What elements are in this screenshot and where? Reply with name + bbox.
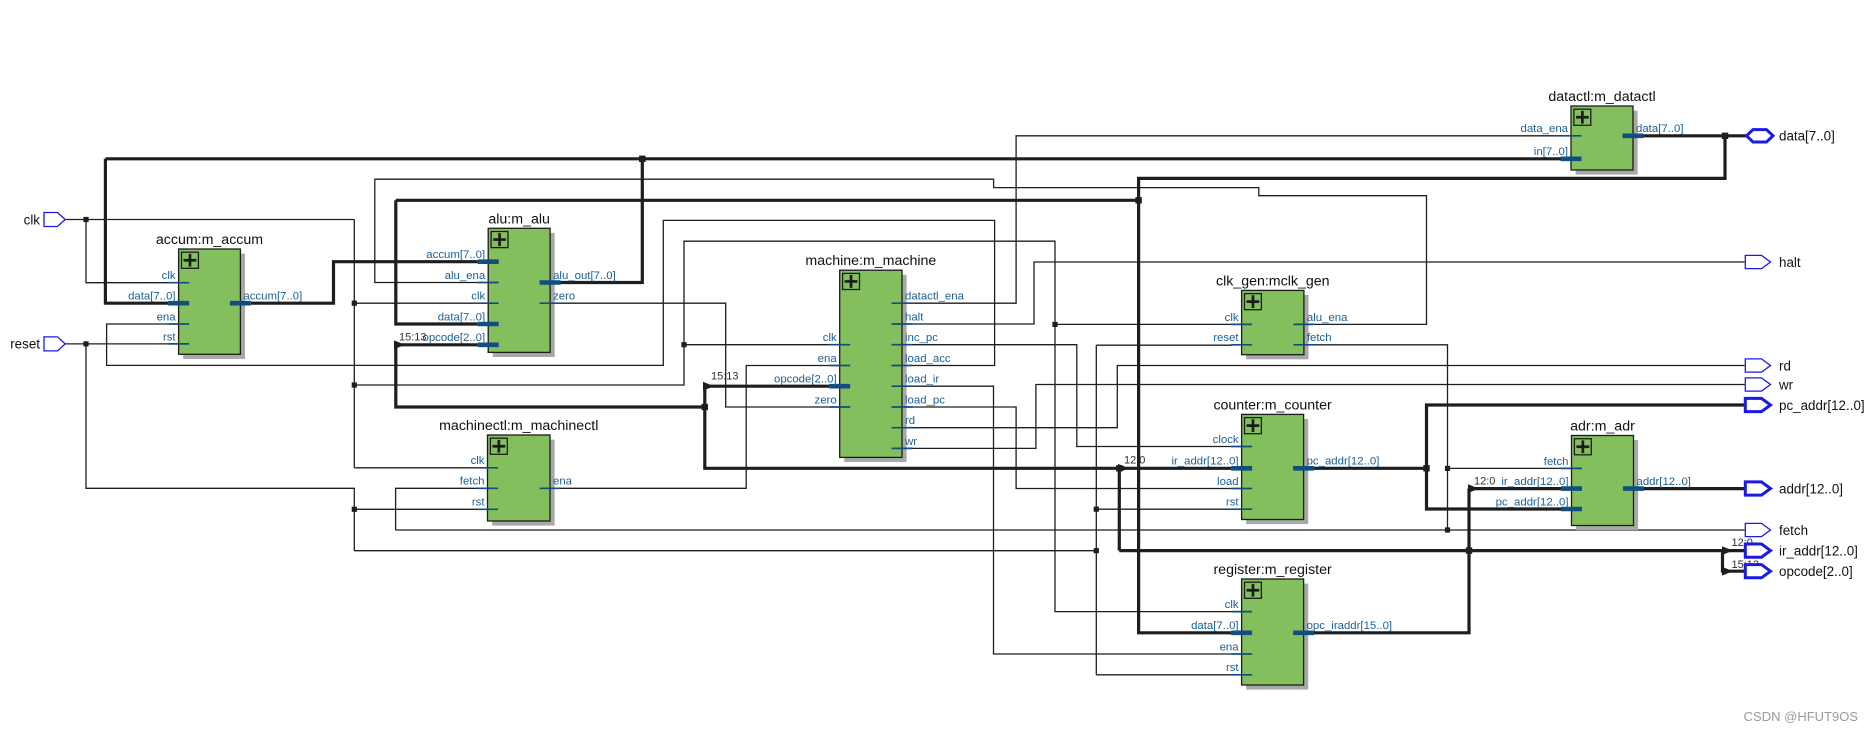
port machinectl.ena (output) [540,476,573,489]
junction [1052,322,1057,327]
svg-text:reset: reset [1213,332,1239,344]
svg-text:wr: wr [904,436,917,448]
wire clk to machine.clk [684,344,829,346]
port adr.addr[12..0] (output) [1623,476,1691,489]
wire clk pin run [65,219,354,221]
svg-text:alu_out[7..0]: alu_out[7..0] [553,270,616,282]
wire datactl_ena [912,136,1560,303]
svg-text:clk: clk [24,212,41,227]
module machine:m_machine [805,253,936,462]
svg-text:datactl_ena: datactl_ena [905,291,965,303]
svg-text:ena: ena [157,311,177,323]
wire machinectl.ena to machine.ena [560,366,829,489]
port alu.accum[7..0] (input) [426,249,498,262]
svg-text:rst: rst [163,331,176,343]
svg-text:fetch: fetch [1544,456,1569,468]
port clk_gen.clk (input) [1225,312,1252,325]
wire alu_ena run [375,179,1427,324]
junction [1445,466,1450,471]
wire addr out to pin [1644,487,1745,490]
junction [83,217,88,222]
wire opc_iraddr slice to opcode pin [1723,551,1745,572]
svg-text:pc_addr[12..0]: pc_addr[12..0] [1779,398,1865,413]
port counter.pc_addr[12..0] (output) [1293,456,1379,469]
port machine.ena (input) [818,353,851,366]
svg-text:fetch: fetch [460,476,485,488]
svg-text:ir_addr[12..0]: ir_addr[12..0] [1501,476,1568,488]
port accum.data[7..0] (input) [128,291,189,304]
wire zero to machine.zero [561,303,830,407]
port machine.opcode[2..0] (input) [774,374,850,387]
input pin reset [10,337,65,352]
port adr.ir_addr[12..0] (input) [1501,476,1582,489]
svg-text:data[7..0]: data[7..0] [128,291,176,303]
module alu:m_alu [488,211,555,357]
junction [1722,133,1728,139]
wire load_pc to counter.load [912,407,1231,489]
wire reset to register.rst [1096,674,1231,676]
port register.data[7..0] (input) [1191,620,1252,633]
wire wr to pin [912,385,1744,449]
wire reset to machinectl.rst [354,508,477,510]
svg-text:opcode[2..0]: opcode[2..0] [422,332,485,344]
junction [1094,548,1099,553]
wire load_ir to register.ena [912,386,1231,654]
port machinectl.fetch (input) [460,476,498,489]
svg-text:15:13: 15:13 [711,371,739,383]
output pin opcode[2..0] [1745,564,1852,579]
svg-text:load_ir: load_ir [905,374,939,386]
junction [83,341,88,346]
wire opc_iraddr slice to counter.ir_addr [1119,467,1231,470]
output pin fetch [1745,523,1808,538]
junction [1135,197,1141,203]
port machinectl.clk (input) [471,455,498,468]
bus slice arrowhead [1722,546,1733,555]
svg-text:12:0: 12:0 [1124,455,1145,467]
port machine.datactl_ena (output) [892,291,965,304]
wire fetch long run [396,529,1745,531]
wire alu_out bus to accum.data [105,159,168,303]
wire data bus left run [396,199,1139,202]
module clk_gen:mclk_gen [1216,273,1330,359]
port machinectl.rst (input) [472,497,498,510]
junction [1116,465,1122,471]
svg-text:rd: rd [905,415,915,427]
port accum.ena (input) [157,311,190,324]
output pin addr[12..0] [1745,481,1843,496]
wire alu_out to net [561,159,643,283]
port machine.zero (input) [815,394,851,407]
junction [352,382,357,387]
port alu.zero (output) [540,291,576,304]
wire clk main vertical [353,220,355,468]
svg-text:ir_addr[12..0]: ir_addr[12..0] [1171,456,1238,468]
junction [1445,527,1450,532]
svg-text:wr: wr [1778,377,1794,392]
svg-text:adr:m_adr: adr:m_adr [1570,419,1635,435]
svg-text:zero: zero [815,394,837,406]
output pin ir_addr[12..0] [1745,543,1858,558]
wire data bus to alu.data [396,200,478,324]
junction [639,156,645,162]
svg-text:counter:m_counter: counter:m_counter [1213,397,1332,413]
svg-text:ena: ena [818,353,838,365]
svg-text:pc_addr[12..0]: pc_addr[12..0] [1496,496,1569,508]
wire opc_iraddr bus up [1118,468,1121,550]
bus slice arrowhead [1722,567,1733,576]
port accum.clk (input) [162,270,189,283]
svg-text:ir_addr[12..0]: ir_addr[12..0] [1779,543,1858,558]
port machine.clk (input) [823,332,850,345]
port alu.opcode[2..0] (input) [422,332,498,345]
port alu.clk (input) [471,291,498,304]
wire inc_pc to counter.clock [912,345,1231,447]
bus slice arrowhead [1468,484,1479,493]
svg-text:addr[12..0]: addr[12..0] [1779,481,1843,496]
wire opc_iraddr bus left run [705,386,1120,468]
svg-text:alu_ena: alu_ena [1307,312,1348,324]
module accum:m_accum [156,232,263,359]
svg-text:addr[12..0]: addr[12..0] [1637,476,1691,488]
port machine.inc_pc (output) [892,332,939,345]
port register.clk (input) [1225,599,1252,612]
svg-text:load_acc: load_acc [905,353,951,365]
svg-text:clk: clk [823,332,837,344]
port machine.wr (output) [892,436,918,449]
wire opc_iraddr slice to ir_addr pin [1723,549,1745,552]
svg-text:rst: rst [472,497,485,509]
wire clk to alu.clk [354,302,478,304]
svg-text:pc_addr[12..0]: pc_addr[12..0] [1307,456,1380,468]
wire opc_iraddr bus from register [1314,489,1469,633]
port clk_gen.fetch (output) [1293,332,1331,345]
input pin clk [24,212,66,227]
module datactl:m_datactl [1548,89,1655,175]
svg-text:zero: zero [553,291,575,303]
port register.ena (input) [1220,641,1253,654]
junction [681,342,686,347]
bus slice arrowhead [703,382,714,391]
svg-text:load: load [1217,476,1239,488]
svg-text:load_pc: load_pc [905,394,945,406]
wire fetch from clk_gen [1314,345,1447,530]
wire data bus to register.data [1139,200,1232,633]
port adr.fetch (input) [1544,456,1582,469]
svg-text:accum[7..0]: accum[7..0] [243,291,302,303]
svg-text:clock: clock [1213,434,1239,446]
port datactl.in[7..0] (input) [1534,146,1582,159]
svg-text:CSDN @HFUT9OS: CSDN @HFUT9OS [1744,709,1859,724]
output pin halt [1745,255,1801,270]
svg-text:halt: halt [1779,255,1801,270]
svg-text:fetch: fetch [1307,332,1332,344]
svg-text:data_ena: data_ena [1520,123,1568,135]
module machinectl:m_machinectl [439,418,598,526]
port counter.clock (input) [1213,434,1252,447]
bidir pin data[7..0] [1747,129,1835,144]
port counter.ir_addr[12..0] (input) [1171,456,1252,469]
wire opc_iraddr bus run [1119,549,1722,552]
wire opc_iraddr bus to alu [396,345,705,407]
wire reset to counter.rst [1096,508,1231,510]
svg-text:opcode[2..0]: opcode[2..0] [774,374,837,386]
wire clk to machinectl.clk [354,467,477,469]
svg-text:opcode[2..0]: opcode[2..0] [1779,564,1853,579]
output pin pc_addr[12..0] [1745,398,1864,413]
module register:m_register [1213,562,1332,690]
svg-text:15:13: 15:13 [399,332,427,344]
svg-text:rst: rst [1226,662,1239,674]
bus slice arrowhead [394,340,405,349]
svg-text:in[7..0]: in[7..0] [1534,146,1568,158]
port machine.load_ir (output) [892,374,940,387]
junction [1466,547,1472,553]
svg-text:fetch: fetch [1779,523,1808,538]
port machine.load_pc (output) [892,394,946,407]
wire reset east run [354,550,1096,552]
svg-text:alu_ena: alu_ena [445,270,486,282]
port register.opc_iraddr[15..0] (output) [1293,620,1392,633]
port alu.alu_out[7..0] (output) [540,270,616,283]
junction [352,301,357,306]
port accum.accum[7..0] (output) [230,291,302,304]
wire pc_addr to adr.pc_addr [1427,468,1562,509]
svg-text:data[7..0]: data[7..0] [1636,123,1684,135]
junction [1423,465,1429,471]
wire halt to pin [912,262,1744,324]
svg-text:clk: clk [1225,312,1239,324]
output pin wr [1745,377,1793,392]
wire reset right vertical [1095,345,1097,675]
wire reset to clk_gen.reset [1096,344,1231,346]
port register.rst (input) [1226,662,1252,675]
wire data bus to pin [1643,134,1746,137]
svg-text:inc_pc: inc_pc [905,332,938,344]
port counter.load (input) [1217,476,1252,489]
port clk_gen.alu_ena (output) [1293,312,1348,325]
wire clk to clk_gen.clk [1055,323,1232,325]
svg-text:halt: halt [905,311,924,323]
wire rd to pin [912,366,1744,428]
svg-text:data[7..0]: data[7..0] [438,311,486,323]
wire load_acc to accum.ena [107,220,995,365]
wire reset pin to accum.rst [65,343,168,345]
svg-text:ena: ena [1220,641,1240,653]
svg-text:accum:m_accum: accum:m_accum [156,232,263,248]
svg-text:data[7..0]: data[7..0] [1191,620,1239,632]
wire alu_out bus main [105,157,1561,160]
svg-text:12:0: 12:0 [1474,476,1495,488]
svg-text:machine:m_machine: machine:m_machine [805,253,936,269]
svg-text:register:m_register: register:m_register [1213,562,1332,578]
svg-text:clk: clk [162,270,176,282]
module adr:m_adr [1570,419,1638,531]
port datactl.data_ena (input) [1520,123,1581,136]
bus slice arrowhead [1118,464,1129,473]
wire fetch to machinectl.fetch [396,488,478,530]
port clk_gen.reset (input) [1213,332,1252,345]
junction [1094,507,1099,512]
svg-text:opc_iraddr[15..0]: opc_iraddr[15..0] [1307,620,1393,632]
module counter:m_counter [1213,397,1332,524]
wire pc_addr to pin [1427,405,1745,468]
svg-text:rst: rst [1226,497,1239,509]
port alu.alu_ena (input) [445,270,499,283]
wire fetch to adr.fetch [1448,467,1562,469]
junction [352,507,357,512]
port alu.data[7..0] (input) [438,311,499,324]
port datactl.data[7..0] (output) [1623,123,1684,136]
svg-text:reset: reset [10,337,40,352]
wire clk east run [354,241,1231,611]
svg-text:data[7..0]: data[7..0] [1779,129,1835,144]
wire pc_addr from counter [1314,467,1427,470]
port machine.rd (output) [892,415,916,428]
output pin rd [1745,358,1791,373]
svg-text:clk_gen:mclk_gen: clk_gen:mclk_gen [1216,273,1330,289]
wire opc_iraddr slice to machine.opcode [705,385,830,388]
svg-text:alu:m_alu: alu:m_alu [488,211,550,227]
port counter.rst (input) [1226,497,1252,510]
svg-text:machinectl:m_machinectl: machinectl:m_machinectl [439,418,598,434]
wire reset down run [86,344,354,551]
svg-text:datactl:m_datactl: datactl:m_datactl [1548,89,1655,105]
wire accum out to alu.accum [251,262,478,304]
port adr.pc_addr[12..0] (input) [1496,496,1582,509]
svg-text:clk: clk [471,455,485,467]
wire opc_iraddr slice to adr.ir_addr [1469,487,1561,490]
svg-text:ena: ena [553,476,573,488]
wire clk to accum.clk [86,220,168,283]
port machine.load_acc (output) [892,353,951,366]
svg-text:clk: clk [1225,599,1239,611]
wire opc_iraddr slice to alu.opcode [396,343,478,346]
svg-text:accum[7..0]: accum[7..0] [426,249,485,261]
port machine.halt (output) [892,311,925,324]
svg-text:clk: clk [471,291,485,303]
wire data bus down-left [1139,136,1725,201]
svg-text:rd: rd [1779,358,1791,373]
junction [702,404,708,410]
port accum.rst (input) [163,331,189,344]
